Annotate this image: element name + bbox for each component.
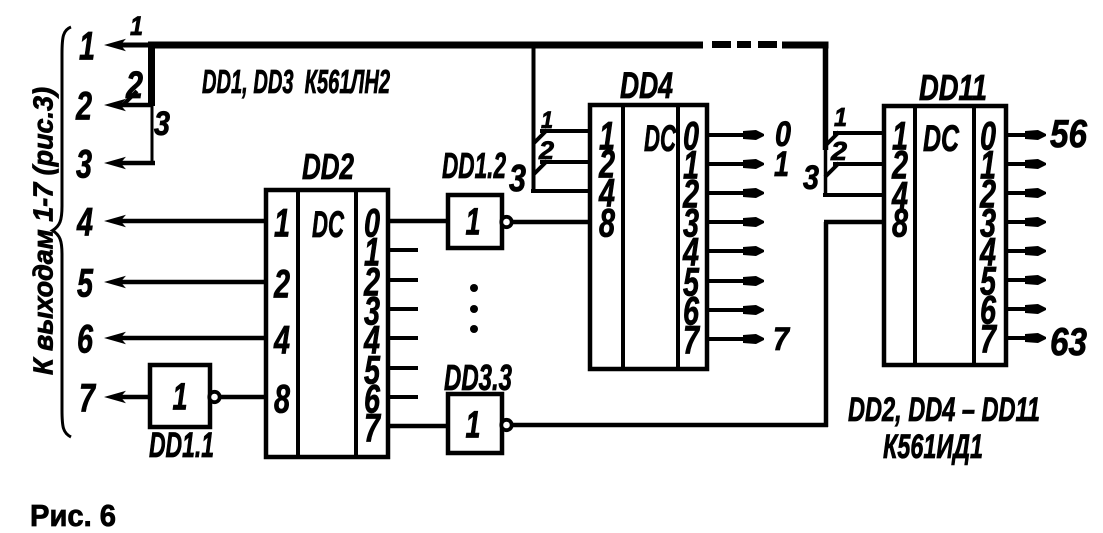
tap slash DD11 pin2: [825, 163, 839, 177]
wire row 7 to DD1.1: [118, 395, 152, 400]
bus thin drop rows 2-3: [151, 105, 154, 163]
decoder DD11 box: [884, 106, 1006, 365]
DD4 output arrow 4: [707, 249, 748, 253]
svg-text:56: 56: [1050, 113, 1087, 156]
svg-text:1: 1: [173, 377, 188, 419]
DD4 output arrow 3: [707, 220, 748, 224]
DD3.3 inversion bubble: [501, 420, 511, 430]
svg-text:К выходам 1-7 (рис.3): К выходам 1-7 (рис.3): [28, 87, 59, 375]
DD4 output arrow 2: [707, 191, 748, 195]
tap slash DD4 pin1: [533, 130, 547, 144]
svg-text:8: 8: [274, 377, 291, 421]
svg-text:2: 2: [125, 65, 143, 107]
arrow row 6: [104, 332, 126, 344]
DD11 output arrow 2: [1006, 191, 1030, 195]
wire DD1.1 to DD2 pin8: [220, 395, 266, 400]
tap slash DD4 pin2: [533, 161, 547, 175]
wire row 1 to bus: [118, 43, 155, 48]
DD2 output stub wire: [388, 395, 418, 399]
DD2 output stub wire: [388, 366, 418, 370]
DD11 output arrow 0: [1006, 133, 1030, 137]
decoder DD4 box: [590, 105, 707, 369]
svg-text:DD2: DD2: [302, 146, 354, 187]
svg-text:DD2, DD4 – DD11: DD2, DD4 – DD11: [848, 391, 1040, 429]
DD11 output arrow 1: [1006, 162, 1030, 166]
brace bracket (outputs 1-7 group): [53, 27, 72, 437]
svg-text:Рис. 6: Рис. 6: [30, 498, 116, 533]
arrow row 3: [104, 157, 126, 169]
svg-text:1: 1: [774, 145, 789, 184]
DD1.1 inversion bubble: [209, 392, 219, 402]
arrow row 1: [104, 39, 126, 51]
wire to DD4 pin2: [540, 160, 590, 164]
svg-text:1: 1: [541, 107, 553, 134]
svg-text:7: 7: [79, 376, 96, 420]
svg-text:1: 1: [834, 102, 847, 132]
svg-text:2: 2: [830, 136, 848, 166]
svg-text:DD11: DD11: [919, 67, 987, 108]
bus dash 2: [737, 41, 751, 48]
svg-text:DD1, DD3 К561ЛН2: DD1, DD3 К561ЛН2: [202, 63, 390, 100]
svg-text:1: 1: [79, 24, 95, 68]
svg-text:3: 3: [154, 105, 170, 143]
bus thin drop to DD11 pin4: [824, 148, 828, 197]
svg-text:3: 3: [76, 142, 92, 186]
wire DD3.3 to DD11 pin8 horizontal: [512, 423, 828, 428]
DD2 output stub wire: [388, 248, 418, 252]
DD11 output arrow 6: [1006, 307, 1030, 311]
wire to DD11 pin1: [833, 131, 884, 135]
svg-text:DD4: DD4: [620, 65, 673, 106]
tap slash row 2: [124, 91, 137, 104]
svg-text:1: 1: [274, 201, 290, 245]
DD11 output arrow 7: [1006, 336, 1030, 340]
svg-text:3: 3: [509, 158, 526, 200]
wire to DD4 pin1: [540, 129, 590, 133]
svg-text:3: 3: [803, 159, 819, 197]
DD2 output stub wire: [388, 336, 418, 340]
svg-text:DC: DC: [312, 204, 345, 245]
DD11 output arrow 3: [1006, 220, 1030, 224]
decoder DD2 box: [266, 190, 388, 457]
wire row 2: [118, 103, 151, 108]
wire to DD11 pin4: [823, 193, 884, 197]
arrow row 2: [104, 99, 126, 111]
DD1.2 inversion bubble: [501, 217, 511, 227]
tap slash DD11 pin1: [825, 132, 839, 146]
inverter DD3.3 box: [448, 394, 502, 453]
wire DD1.2 to DD4 pin8: [512, 220, 590, 225]
DD11 output arrow 5: [1006, 278, 1030, 282]
wire DD3.3 to DD11 pin8 vertical: [824, 222, 829, 427]
svg-text:7: 7: [683, 318, 700, 362]
DD4 output arrow 7: [707, 337, 748, 341]
svg-text:4: 4: [76, 200, 93, 244]
inverter DD1.2 box: [448, 195, 502, 248]
svg-text:2: 2: [273, 262, 290, 306]
svg-text:7: 7: [364, 406, 381, 450]
bus dash 3: [758, 41, 777, 48]
wire row 3: [118, 161, 155, 166]
DD2 output stub wire: [388, 307, 418, 311]
bus solid to DD11 corner: [782, 42, 829, 49]
arrow row 4: [104, 215, 126, 227]
svg-text:7: 7: [980, 317, 997, 361]
svg-text:6: 6: [77, 317, 94, 361]
wire row 5 to DD2: [118, 280, 266, 285]
svg-text:2: 2: [75, 84, 92, 128]
svg-text:8: 8: [599, 201, 616, 245]
svg-text:63: 63: [1050, 321, 1087, 364]
DD4 output arrow 1: [707, 162, 748, 166]
wire into DD11 pin8: [824, 220, 884, 225]
wire to DD4 pin4: [531, 189, 590, 193]
svg-text:К561ИД1: К561ИД1: [883, 428, 983, 466]
DD4 output arrow 5: [707, 279, 748, 283]
wire row 4 to DD2: [118, 219, 266, 224]
arrow row 7: [104, 391, 126, 403]
svg-text:2: 2: [538, 137, 554, 165]
arrow row 5: [104, 276, 126, 288]
svg-text:DD1.1: DD1.1: [149, 426, 214, 465]
DD4 output arrow 6: [707, 308, 748, 312]
svg-text:5: 5: [77, 261, 94, 305]
svg-text:4: 4: [273, 318, 290, 362]
DD11 output arrow 4: [1006, 249, 1030, 253]
svg-text:8: 8: [892, 201, 909, 245]
bus dash 1: [712, 41, 731, 48]
wire DD2 out0 to DD1.2: [388, 219, 448, 224]
label K vyhodam 1-7 (ris.3): [28, 87, 59, 375]
wire DD2 out7 to DD3.3: [388, 424, 448, 429]
svg-text:1: 1: [466, 405, 481, 447]
bus horizontal main: [148, 42, 703, 49]
svg-text:DD3.3: DD3.3: [444, 357, 512, 398]
svg-text:1: 1: [130, 11, 143, 41]
wire row 6 to DD2: [118, 336, 266, 341]
svg-text:DC: DC: [923, 118, 960, 159]
svg-text:1: 1: [466, 202, 481, 244]
svg-text:7: 7: [773, 321, 791, 357]
svg-text:DC: DC: [644, 118, 677, 159]
bus vertical drop to DD11: [823, 42, 829, 150]
ellipsis dots: [470, 284, 478, 333]
inverter DD1.1 box: [150, 365, 210, 427]
svg-text:DD1.2: DD1.2: [442, 145, 506, 186]
bus vertical drop to DD4: [532, 42, 536, 193]
DD2 output stub wire: [388, 278, 418, 282]
DD4 output arrow 0: [707, 133, 748, 137]
bus vertical drop at left: [148, 42, 155, 106]
wire to DD11 pin2: [833, 162, 884, 166]
